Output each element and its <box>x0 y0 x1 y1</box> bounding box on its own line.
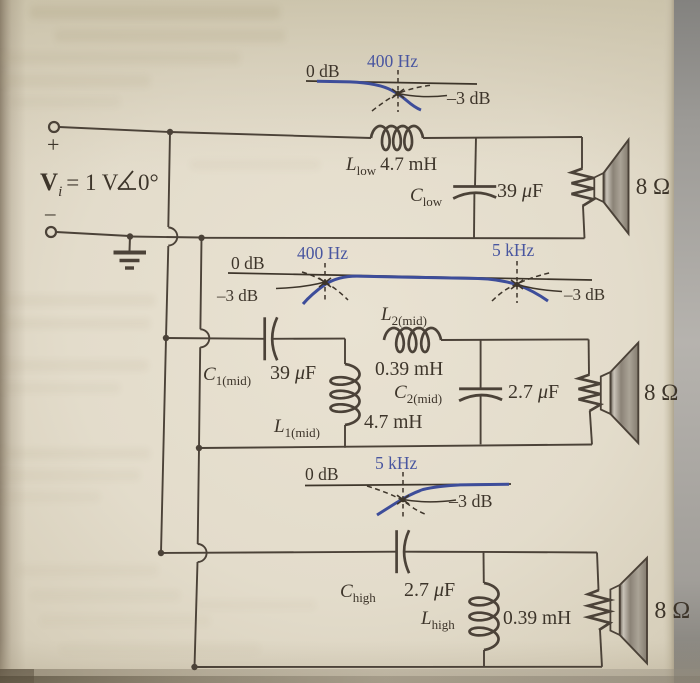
dashed rising curve at crossover <box>372 85 432 111</box>
svg-text:+: + <box>47 132 59 157</box>
wire top to C2(mid) <box>480 340 482 389</box>
wire low-pass return (bottom of low section) <box>202 237 585 240</box>
svg-text:0.39 mH: 0.39 mH <box>503 608 571 629</box>
inductor L_high 0.39 mH <box>470 583 499 650</box>
wire high return (bottom of high section) <box>195 666 603 668</box>
node - bus top <box>198 235 204 241</box>
wire + bus vertical with hop over - wire <box>161 132 177 553</box>
wire C1(mid) to L1(mid) node <box>272 338 346 340</box>
capacitor C_low 39 uF <box>453 185 496 188</box>
dashed vertical 5 kHz tick (mid) <box>516 261 518 303</box>
wire corner down to low speaker <box>581 137 583 169</box>
svg-text:2.7 μF: 2.7 μF <box>508 381 559 403</box>
ground symbol <box>129 237 132 252</box>
wire mid speaker to bottom corner <box>590 411 592 445</box>
wire + terminal to L_low <box>59 127 371 138</box>
svg-text:39 μF: 39 μF <box>497 180 543 202</box>
svg-text:–3 dB: –3 dB <box>446 88 491 108</box>
wire high speaker to bottom corner <box>600 630 602 667</box>
svg-text:0 dB: 0 dB <box>306 61 340 81</box>
inductor L1(mid) 4.7 mH <box>331 364 360 425</box>
svg-text:400 Hz: 400 Hz <box>367 51 418 71</box>
wire L2(mid) to mid speaker corner <box>441 338 589 341</box>
node mid return on - bus <box>196 445 202 451</box>
svg-text:8 Ω: 8 Ω <box>644 380 678 405</box>
wire - terminal to ground node <box>56 232 130 236</box>
wire corner down to mid speaker <box>588 339 590 374</box>
node mid input on + bus <box>163 335 169 341</box>
terminal - (Vi negative) <box>46 227 56 237</box>
curve high-pass response (blue) <box>377 484 509 515</box>
dashed vertical 400 Hz tick (mid) <box>324 263 326 303</box>
curve low-pass response (blue) <box>317 81 421 110</box>
wire L_high to high return <box>483 650 485 667</box>
wire low speaker to bottom corner <box>583 206 585 238</box>
svg-text:–3 dB: –3 dB <box>448 491 493 511</box>
svg-text:0°: 0° <box>138 170 159 195</box>
curve band-pass response (blue) <box>303 276 548 304</box>
svg-text:8 Ω: 8 Ω <box>654 598 690 624</box>
dashed vertical 400 Hz tick <box>397 70 399 112</box>
dashed high-pass rising curve (mid panel right) <box>492 273 551 302</box>
dashed falling curve (high panel) <box>367 486 427 515</box>
wire + bus to C1(mid), passes under - bus hop <box>166 337 265 340</box>
node crossover 5 kHz -3 dB (high panel) <box>397 495 409 504</box>
wire L_low to speaker corner <box>423 137 582 138</box>
speaker tweeter cone <box>610 585 619 635</box>
capacitor C_high 2.7 uF <box>395 530 398 573</box>
wire - bus vertical with hop over high-pass input <box>195 238 210 667</box>
svg-text:–: – <box>44 201 56 225</box>
wire node down to L1(mid) <box>344 339 346 364</box>
wire corner down to high speaker <box>597 553 599 591</box>
svg-text:4.7 mH: 4.7 mH <box>364 412 423 433</box>
node crossover 5 kHz (mid panel) <box>511 280 523 289</box>
resistor low speaker voice coil zigzag 8 ohm <box>572 169 594 207</box>
svg-text:0 dB: 0 dB <box>305 464 339 484</box>
capacitor C1(mid) 39 uF <box>263 317 266 360</box>
node high return on - bus <box>191 664 197 670</box>
curve -3dB tail left (mid panel) <box>276 282 325 289</box>
node crossover 400 Hz (mid panel) <box>319 278 331 287</box>
speaker mid-range cone <box>601 372 611 414</box>
svg-text:8 Ω: 8 Ω <box>636 174 670 199</box>
wire C2(mid) to mid return <box>480 395 482 444</box>
wire ground node to - bus (passes under + bus hop) <box>130 237 202 238</box>
svg-text:–3 dB: –3 dB <box>216 286 258 305</box>
node crossover point 400 Hz -3 dB <box>392 89 404 98</box>
svg-text:0.39 mH: 0.39 mH <box>375 359 443 380</box>
wire mid return (bottom of mid section) <box>199 445 592 449</box>
axis 0 dB line (high panel) <box>305 484 511 486</box>
wire C_high to L_high node <box>404 551 484 553</box>
wire C_low to bottom <box>473 193 475 238</box>
svg-text:400 Hz: 400 Hz <box>297 243 348 263</box>
inductor L_low 4.7 mH <box>371 126 423 150</box>
curve -3dB pointer tail <box>398 94 447 97</box>
axis 0 dB line (mid panel) <box>228 273 592 280</box>
svg-text:5 kHz: 5 kHz <box>375 453 418 473</box>
capacitor C2(mid) 2.7 uF <box>459 387 502 390</box>
wire + bus to C_high, passes under - bus hop <box>161 552 397 553</box>
inductor L2(mid) 0.39 mH <box>384 328 441 352</box>
node top junction (+ bus tap) <box>167 129 173 135</box>
resistor high speaker voice coil zigzag 8 ohm <box>588 590 610 630</box>
dashed vertical 5 kHz tick (high) <box>402 472 404 517</box>
svg-text:–3 dB: –3 dB <box>563 285 605 304</box>
wire L1(mid) to mid return <box>344 425 346 448</box>
node ground junction <box>127 233 133 239</box>
wire L_high node to high speaker corner <box>484 551 598 554</box>
node high input on + bus <box>158 550 164 556</box>
axis 0 dB line (low panel) <box>306 81 477 84</box>
wire top to C_low <box>475 137 476 186</box>
speaker low woofer cone <box>594 173 603 202</box>
terminal + (Vi positive) <box>49 122 59 132</box>
resistor mid speaker voice coil zigzag 8 ohm <box>579 375 601 411</box>
svg-text:5 kHz: 5 kHz <box>492 240 535 260</box>
svg-text:0 dB: 0 dB <box>231 253 265 273</box>
curve -3dB tail (high panel) <box>403 500 456 502</box>
dashed low-pass falling curve (mid panel left) <box>302 272 348 300</box>
wire node down to L_high <box>483 552 485 583</box>
svg-text:39 μF: 39 μF <box>270 362 316 384</box>
svg-text:2.7 μF: 2.7 μF <box>404 579 455 601</box>
curve -3dB tail right (mid panel) <box>517 285 562 292</box>
